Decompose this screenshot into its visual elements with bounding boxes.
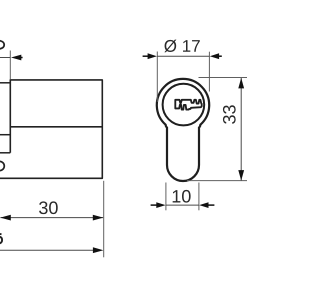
extension line height top (from circle top) bbox=[199, 77, 248, 79]
dimension line width 10 bbox=[166, 204, 199, 206]
dimension text height 33 (rotated) bbox=[223, 105, 236, 124]
extension line left edge of body (top-left) bbox=[9, 51, 11, 80]
arrow 30 left bbox=[0, 215, 11, 221]
extension line diameter right bbox=[208, 52, 210, 92]
keyway profile bbox=[175, 100, 201, 110]
dimension text diameter 17 bbox=[164, 40, 199, 53]
dimension line 30 bbox=[0, 217, 103, 219]
extension line width 10 left bbox=[165, 183, 167, 211]
extension line right of body (bottom) bbox=[103, 181, 105, 257]
arrow overall length right bbox=[93, 247, 104, 253]
arrow width 10 left pointing right bbox=[151, 202, 166, 208]
cam fixing screw circle (cut off at left) bbox=[0, 161, 4, 170]
cylinder body side view outline bbox=[0, 80, 102, 178]
arrow height 33 top pointing up bbox=[238, 78, 244, 89]
dimension line diameter 17 bbox=[157, 55, 209, 57]
arrow width 10 right pointing left bbox=[199, 202, 214, 208]
front view inner circle (plug) bbox=[163, 84, 205, 126]
dimension text width 10 bbox=[173, 190, 191, 203]
cam ring top edge (cut off at left) bbox=[0, 82, 10, 84]
dimension line top-left (10, cut off) bbox=[0, 57, 10, 59]
arrow top-left pointing left bbox=[11, 55, 23, 61]
extension line diameter left bbox=[156, 52, 158, 103]
arrow diameter left pointing right bbox=[143, 53, 157, 59]
dimension text 10 (cut off, only 0 visible) bbox=[0, 41, 4, 49]
dimension text 45 (cut off, only 5 sliver visible) bbox=[0, 234, 2, 243]
cam tongue upper edge stub bbox=[0, 134, 10, 136]
cam tongue lower edge stub bbox=[0, 152, 10, 154]
arrow height 33 bottom pointing down bbox=[238, 170, 244, 181]
body/profile divider line bbox=[10, 126, 102, 128]
dimension line overall length (cut off at left) bbox=[0, 249, 96, 251]
arrow diameter right pointing left bbox=[210, 53, 222, 59]
front view outer profile (circle + euro stadium) bbox=[157, 79, 209, 181]
dimension line height 33 bbox=[240, 78, 242, 181]
extension line width 10 right bbox=[198, 183, 200, 211]
arrow 30 right bbox=[93, 215, 104, 221]
extension line height bottom (from stadium bottom) bbox=[187, 180, 247, 182]
dimension text 30 bbox=[39, 201, 58, 214]
